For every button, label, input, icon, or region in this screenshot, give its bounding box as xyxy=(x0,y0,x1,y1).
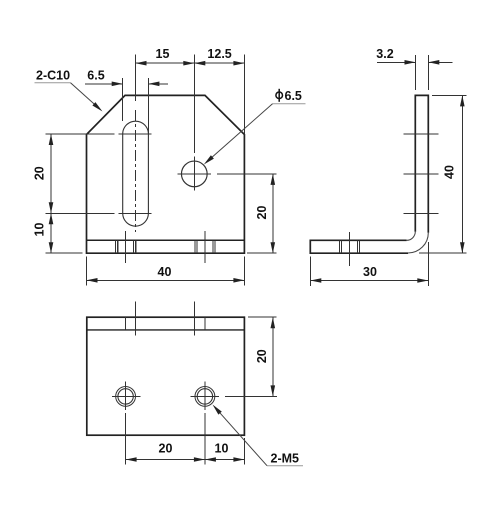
label 2-M5 leader xyxy=(219,412,267,466)
svg-text:40: 40 xyxy=(158,265,172,279)
right dim 20 (front) line xyxy=(272,174,274,253)
svg-text:6.5: 6.5 xyxy=(87,69,104,83)
svg-text:30: 30 xyxy=(363,265,377,279)
bottom dim 10 line xyxy=(205,459,245,461)
bottom view strip tick right (M5 center) xyxy=(204,317,206,330)
slot outline xyxy=(123,121,149,226)
label 2-C10 leader xyxy=(71,83,96,105)
bottom view bend line xyxy=(87,329,245,331)
right dim 20 (front) extension xyxy=(247,252,277,254)
side view M5 centerline xyxy=(349,232,351,266)
dim 40 (side) extensions xyxy=(432,94,467,96)
label 2-C10 shoulder xyxy=(35,82,71,84)
svg-text:40: 40 xyxy=(443,165,457,179)
hole 6.5 xyxy=(181,161,207,187)
dim 6.5 lines xyxy=(85,83,123,85)
svg-text:20: 20 xyxy=(255,349,269,363)
svg-text:10: 10 xyxy=(215,442,229,456)
side view tick hole center xyxy=(404,173,439,175)
right dim 20 (bottom view) line xyxy=(272,317,274,396)
side view M5 projection xyxy=(339,240,359,253)
label phi6.5 shoulder xyxy=(273,103,306,105)
side view tick slot bottom xyxy=(404,212,439,214)
bottom view strip tick left (M5 center) xyxy=(125,317,127,330)
bottom view outline xyxy=(87,317,245,435)
bottom dim 40 extensions xyxy=(86,257,88,286)
svg-text:2-M5: 2-M5 xyxy=(271,452,300,466)
M5 hole right (bottom view) xyxy=(195,387,215,407)
bottom dim 40 line xyxy=(87,279,245,281)
svg-text:12.5: 12.5 xyxy=(207,47,231,61)
dim 6.5 extensions xyxy=(122,78,124,121)
left dim 20/10 extensions xyxy=(46,133,115,135)
side view outline xyxy=(310,95,428,253)
svg-text:20: 20 xyxy=(255,206,269,220)
dim 3.2 lines xyxy=(377,61,416,63)
M5 hole left centerlines xyxy=(112,395,141,397)
label 2-M5 shoulder xyxy=(267,465,303,467)
M5 hole left (bottom view) xyxy=(116,387,136,407)
svg-text:3.2: 3.2 xyxy=(376,47,393,61)
dim 40 (side) line xyxy=(461,95,463,253)
dim 12.5 extension (right edge) xyxy=(243,55,245,135)
bottom view hole centerline projection xyxy=(193,302,195,336)
left dim line xyxy=(50,134,52,253)
dim 3.2 extensions xyxy=(415,55,417,90)
side view inner bend arc xyxy=(407,232,416,241)
side view tick slot top xyxy=(404,133,439,135)
right dim 20 (bottom view) extension xyxy=(248,316,277,318)
M5 centerline right (front view) xyxy=(204,231,206,263)
M5 hole right centerlines xyxy=(191,395,220,397)
bottom dim 20 line xyxy=(126,459,205,461)
slot top tangent tick xyxy=(119,133,152,135)
svg-text:15: 15 xyxy=(156,47,170,61)
svg-text:10: 10 xyxy=(33,223,47,237)
front view plate outline xyxy=(87,95,245,253)
dim 12.5 line xyxy=(194,62,244,64)
dim 30 extensions xyxy=(309,257,311,286)
bottom view slot centerline projection xyxy=(135,302,137,336)
dim 15 extension + line xyxy=(62,62,64,64)
M5 hidden projection right (front view strip) xyxy=(195,240,215,253)
M5 centerline left (front view) xyxy=(125,231,127,263)
svg-text:20: 20 xyxy=(159,442,173,456)
hole horizontal centerline xyxy=(178,173,212,175)
label phi6.5 leader xyxy=(211,104,273,158)
side view outer bend arc xyxy=(408,233,428,253)
bottom dims 20/10 extension xyxy=(243,438,245,465)
front view bend line xyxy=(87,239,245,241)
svg-text:20: 20 xyxy=(33,166,47,180)
slot bottom tangent tick xyxy=(119,212,152,214)
svg-text:2-C10: 2-C10 xyxy=(36,69,70,83)
dim 30 line xyxy=(310,280,428,282)
M5 hidden projection left (front view strip) xyxy=(116,240,136,253)
label phi6.5 xyxy=(276,92,283,99)
hole vertical centerline xyxy=(193,55,195,154)
svg-text:6.5: 6.5 xyxy=(285,89,302,103)
slot centerline xyxy=(135,55,137,102)
